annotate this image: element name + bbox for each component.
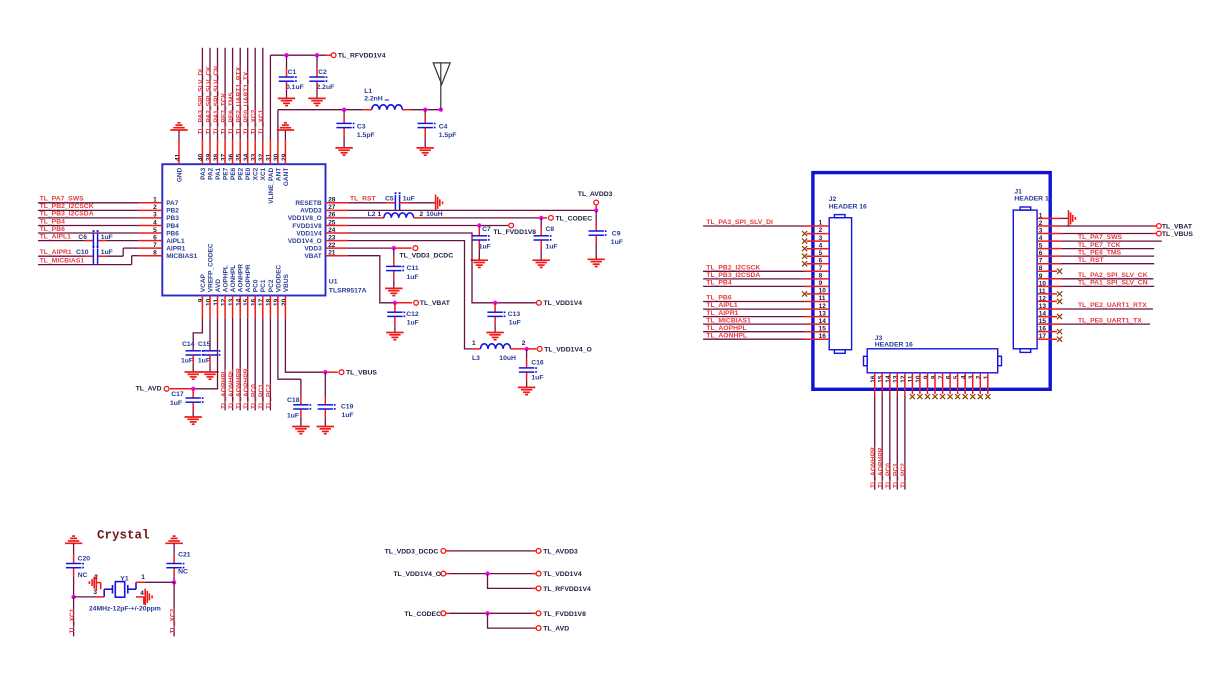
ground (C17): [185, 417, 202, 424]
ground (U1 pin 41): [170, 123, 187, 130]
svg-text:31: 31: [266, 153, 273, 161]
svg-text:6: 6: [945, 375, 952, 379]
svg-text:J2: J2: [829, 196, 837, 203]
wire VCAP (U1 pin 9) to C14: [193, 296, 202, 350]
svg-text:1.5pF: 1.5pF: [357, 132, 375, 139]
wire net TL_RST (J1 pin 7): [1037, 257, 1154, 264]
svg-text:PB3: PB3: [166, 215, 179, 222]
svg-text:24MHz-12pF-+/-20ppm: 24MHz-12pF-+/-20ppm: [89, 606, 161, 613]
svg-text:C8: C8: [546, 226, 555, 233]
crystal pin numbers: [93, 574, 145, 597]
svg-text:1uF: 1uF: [101, 234, 113, 241]
inductor L3 10uH: [472, 340, 526, 362]
wire net TL_PC1 (U1 pin 17): [258, 296, 265, 411]
svg-text:NC: NC: [78, 572, 88, 579]
svg-text:PE0: PE0: [245, 167, 252, 180]
svg-text:1uF: 1uF: [342, 412, 354, 419]
junction (XC2): [172, 580, 176, 584]
svg-text:11: 11: [908, 375, 915, 382]
wire net TL_VBUS (J1 pin 3): [1037, 233, 1156, 235]
ground (rotated, crystal pin 4): [136, 589, 152, 606]
svg-text:TL_AIPR1: TL_AIPR1: [706, 310, 738, 317]
junction (C3 tap): [342, 108, 346, 112]
svg-text:1: 1: [472, 340, 476, 347]
svg-text:AVD: AVD: [215, 279, 222, 293]
svg-text:C7: C7: [482, 226, 491, 233]
port TL_VBAT: [414, 300, 451, 307]
svg-text:XC2: XC2: [253, 167, 260, 180]
svg-text:1uF: 1uF: [407, 274, 419, 281]
svg-text:29: 29: [281, 153, 288, 161]
svg-text:15: 15: [878, 375, 885, 383]
wire net ANT (U1 pin 30) RF line: [278, 110, 372, 165]
svg-text:PC1: PC1: [260, 279, 267, 292]
no-connect J2 pin 6: [802, 261, 829, 266]
svg-text:TL_XC1: TL_XC1: [69, 608, 76, 633]
capacitor C20 NC: [66, 543, 90, 597]
port TL_VBUS (J1): [1157, 231, 1194, 238]
svg-text:40: 40: [198, 153, 205, 161]
wire net TL_PB2_I2CSCK (U1 pin 2): [38, 203, 162, 210]
wire net TL_MICBIAS1 (U1 pin 8): [38, 256, 162, 265]
IC U1 TLSR9517A body: [162, 164, 325, 295]
connector J3 HEADER 16 body: [864, 349, 1002, 373]
wire net TL_PA3_SPI_SLV_DI (J2 pin 1): [703, 219, 829, 226]
svg-text:TL_PA2_SPI_SLV_CK: TL_PA2_SPI_SLV_CK: [205, 66, 212, 135]
svg-text:TL_PC0: TL_PC0: [885, 463, 892, 488]
wire net TL_AONHPR (U1 pin 14): [236, 296, 243, 411]
svg-text:C14: C14: [182, 341, 195, 348]
ground (C2): [308, 98, 325, 105]
net tie TL_VDD1V4_O to TL_VDD1V4 / TL_RFVDD1V4: [393, 571, 582, 578]
port TL_VDD3_DCDC: [400, 246, 454, 260]
svg-text:TL_PA2_SPI_SLV_CK: TL_PA2_SPI_SLV_CK: [1078, 272, 1148, 279]
wire net TL_VBAT (J1 pin 2): [1037, 225, 1156, 227]
svg-text:PA1: PA1: [215, 167, 222, 180]
no-connect J3 pin 10: [917, 373, 922, 399]
wire net TL_AIPR1 (U1 pin 7): [38, 248, 162, 256]
capacitor C6 1uF (series, AIPL1): [78, 230, 112, 248]
svg-text:C9: C9: [612, 230, 621, 237]
svg-text:TL_PA3_SPI_SLV_DI: TL_PA3_SPI_SLV_DI: [198, 69, 205, 135]
svg-text:TL_PA7_SWS: TL_PA7_SWS: [1078, 234, 1123, 241]
svg-text:1uF: 1uF: [403, 195, 415, 202]
svg-text:TL_VDD1V4_O: TL_VDD1V4_O: [544, 346, 592, 353]
junction (TL_CODEC/C8): [539, 216, 543, 220]
no-connect J3 pin 4: [963, 373, 968, 399]
ground (C19): [317, 427, 334, 434]
svg-text:PB4: PB4: [166, 223, 179, 230]
capacitor C7 1uF: [472, 226, 491, 261]
svg-text:1uF: 1uF: [407, 320, 419, 327]
wire net TL_AVD (U1 pin 11 AVD): [170, 296, 218, 389]
capacitor C12 1uF: [387, 303, 419, 333]
junction (C1 tap): [284, 53, 288, 57]
svg-text:AOPHPL: AOPHPL: [223, 265, 230, 292]
wire net TL_VDD3_DCDC (U1 pin 22 VDD3): [326, 247, 412, 249]
svg-text:Crystal: Crystal: [97, 529, 150, 543]
no-connect J3 pin 8: [932, 373, 937, 399]
svg-text:C20: C20: [78, 555, 91, 562]
svg-text:TL_AONHPR: TL_AONHPR: [870, 447, 877, 488]
wire net TL_CODEC (L2 to port): [414, 217, 547, 219]
svg-text:TL_AVD: TL_AVD: [136, 386, 162, 393]
junction (C4 tap): [423, 108, 427, 112]
svg-text:PB2: PB2: [166, 208, 179, 215]
svg-text:10: 10: [915, 375, 922, 383]
svg-text:TL_AONHPL: TL_AONHPL: [228, 369, 235, 409]
wire VDDDEC (U1 pin 19) to C18: [278, 296, 301, 380]
svg-text:TL_PC1: TL_PC1: [258, 384, 265, 409]
no-connect J3 pin 6: [948, 373, 953, 399]
svg-text:18: 18: [266, 298, 273, 306]
ground (C15): [201, 372, 218, 379]
svg-text:AIPL1: AIPL1: [166, 238, 185, 245]
capacitor C3 1.5pF: [336, 110, 374, 148]
capacitor C17 1uF: [170, 389, 204, 417]
inductor L2 10uH: [368, 211, 443, 218]
svg-text:13: 13: [893, 375, 900, 383]
svg-text:9: 9: [923, 375, 930, 379]
ground (C7): [471, 260, 488, 267]
svg-text:TL_PA1_SPI_SLV_CN: TL_PA1_SPI_SLV_CN: [213, 66, 220, 135]
svg-text:VCAP: VCAP: [200, 273, 207, 292]
svg-text:10: 10: [205, 298, 212, 306]
wire net TL_AIPL1 (U1 pin 6): [38, 233, 162, 240]
svg-text:TL_PE2_UART1_RTX: TL_PE2_UART1_RTX: [236, 66, 243, 134]
svg-text:TL_RST: TL_RST: [1078, 257, 1105, 264]
svg-text:30: 30: [273, 153, 280, 161]
svg-text:39: 39: [205, 153, 212, 161]
wire net TL_MICBIAS1 (J2 pin 14): [703, 317, 829, 324]
wire L1 to antenna: [411, 109, 441, 111]
svg-text:2: 2: [976, 375, 983, 379]
wire net TL_PC1 (J3 pin 13): [893, 373, 900, 490]
wire net TL_PE0_UART1_TX (J1 pin 15): [1037, 317, 1150, 324]
svg-text:1uF: 1uF: [170, 400, 182, 407]
no-connect J1 pin 11: [1037, 291, 1062, 296]
junction (AVDD3/C9): [594, 208, 598, 212]
junction (net tie C): [485, 611, 489, 615]
crystal value label: [89, 606, 161, 613]
no-connect J1 pin 14: [1037, 314, 1062, 319]
svg-text:XC1: XC1: [260, 167, 267, 180]
svg-text:36: 36: [228, 153, 235, 161]
wire net TL_XC1: [69, 597, 76, 637]
svg-text:TL_PE0_UART1_TX: TL_PE0_UART1_TX: [1078, 317, 1142, 324]
svg-text:TL_PE2_UART1_RTX: TL_PE2_UART1_RTX: [1078, 302, 1147, 309]
wire net TL_XC1 (U1 pin 32): [258, 48, 265, 164]
svg-text:TL_PE0_UART1_TX: TL_PE0_UART1_TX: [243, 71, 250, 134]
svg-text:TL_PA3_SPI_SLV_DI: TL_PA3_SPI_SLV_DI: [706, 219, 773, 226]
svg-text:PA3: PA3: [200, 167, 207, 180]
port TL_AVD: [136, 386, 169, 393]
svg-text:1uF: 1uF: [546, 243, 558, 250]
no-connect J1 pin 17: [1037, 337, 1062, 342]
junction (net tie B): [485, 571, 489, 575]
connector block outline: [813, 173, 1050, 390]
antenna: [433, 63, 450, 110]
svg-text:AONHPL: AONHPL: [230, 265, 237, 292]
wire net TL_PA7_SWS (U1 pin 1): [38, 196, 162, 203]
svg-text:16: 16: [870, 375, 877, 383]
svg-text:TL_AONHPL: TL_AONHPL: [706, 332, 747, 339]
port TL_VBUS: [339, 370, 377, 377]
svg-text:RESETB: RESETB: [295, 200, 322, 207]
svg-text:10uH: 10uH: [499, 355, 516, 362]
svg-text:HEADER 16: HEADER 16: [875, 342, 913, 349]
ground (C4): [417, 148, 434, 155]
svg-text:17: 17: [258, 298, 265, 306]
IC U1 pin names: [166, 167, 322, 292]
no-connect J1 pin 12: [1037, 299, 1062, 304]
connector J2 pin numbers: [819, 220, 827, 340]
svg-text:L3: L3: [472, 355, 480, 362]
svg-text:GND: GND: [176, 167, 183, 182]
svg-text:TL_CODEC: TL_CODEC: [404, 611, 441, 618]
capacitor C10 1uF (series, AIPR1): [76, 246, 113, 264]
svg-text:L2: L2: [368, 211, 376, 218]
svg-text:TL_PB3_I2CSDA: TL_PB3_I2CSDA: [40, 211, 94, 218]
ground (above C20): [65, 536, 82, 543]
svg-text:TL_AIPL1: TL_AIPL1: [706, 302, 738, 309]
wire net TL_PE0_UART1_TX (U1 pin 34): [243, 48, 250, 164]
wire net TL_PE2_UART1_RTX (U1 pin 35): [236, 48, 243, 164]
svg-text:TL_VDD3_DCDC: TL_VDD3_DCDC: [400, 252, 454, 259]
svg-text:14: 14: [885, 375, 892, 383]
capacitor C19 1uF: [318, 372, 354, 426]
wire net TL_PA1_SPI_SLV_CN (U1 pin 38): [213, 48, 220, 164]
svg-text:32: 32: [258, 153, 265, 161]
capacitor C21 NC: [166, 543, 190, 582]
no-connect J1 pin 8: [1037, 269, 1062, 274]
no-connect J2 pin 5: [802, 254, 829, 259]
wire GND pin 41 to ground: [178, 130, 180, 164]
wire net TL_AIPL1 (J2 pin 12): [703, 302, 829, 309]
svg-text:C6: C6: [78, 234, 87, 241]
wire branch to TL_AVD: [488, 613, 570, 632]
wire net TL_RFVDD1V4 (U1 pin 31 VLINE_PAD): [270, 55, 331, 164]
connector J1 labels: [1014, 188, 1052, 202]
Crystal section title: [97, 529, 150, 543]
svg-text:AOPHPR: AOPHPR: [245, 264, 252, 292]
svg-text:VDD1V4_O: VDD1V4_O: [288, 238, 322, 245]
no-connect J3 pin 9: [925, 373, 930, 399]
connector J3 labels: [875, 335, 913, 349]
wire J1 pin 1 to ground: [1037, 217, 1068, 219]
svg-text:5: 5: [953, 375, 960, 379]
svg-text:13: 13: [228, 298, 235, 306]
no-connect J3 pin 1: [985, 373, 990, 399]
svg-text:VDD3: VDD3: [304, 245, 322, 252]
svg-text:3: 3: [968, 375, 975, 379]
connector J1 pin numbers: [1039, 212, 1047, 340]
svg-text:TL_RFVDD1V4: TL_RFVDD1V4: [338, 53, 386, 60]
svg-text:1uF: 1uF: [198, 358, 210, 365]
svg-text:PC2: PC2: [268, 279, 275, 292]
svg-text:AONHPR: AONHPR: [238, 264, 245, 292]
ground (C1): [278, 98, 295, 105]
no-connect J2 pin 4: [802, 246, 829, 251]
svg-text:TL_VDD1V4_O: TL_VDD1V4_O: [393, 571, 441, 578]
wire net TL_RST (U1 pin 28 RESETB): [326, 195, 396, 202]
svg-text:VBAT: VBAT: [304, 253, 321, 260]
ground (C16): [518, 387, 535, 394]
svg-text:TL_VDD3_DCDC: TL_VDD3_DCDC: [385, 549, 439, 556]
svg-text:TL_PB3_I2CSDA: TL_PB3_I2CSDA: [706, 272, 760, 279]
svg-text:TL_PE6_TMS: TL_PE6_TMS: [228, 92, 235, 135]
svg-text:TL_VBAT: TL_VBAT: [1162, 223, 1193, 230]
svg-text:ANT: ANT: [275, 168, 282, 181]
svg-text:VDD1V4: VDD1V4: [296, 230, 322, 237]
ground (C12): [386, 333, 403, 340]
capacitor C18 1uF: [287, 379, 311, 426]
svg-text:TL_FVDD1V8: TL_FVDD1V8: [493, 229, 536, 236]
svg-text:TL_PC1: TL_PC1: [893, 463, 900, 488]
wire net TL_VDD1V4_O (L3 to port): [511, 348, 537, 350]
svg-text:C3: C3: [357, 123, 366, 130]
ground (C3): [335, 148, 352, 155]
net tie TL_CODEC to TL_FVDD1V8 / TL_AVD: [404, 611, 586, 618]
wire net TL_PA2_SPI_SLV_CK (U1 pin 39): [205, 48, 212, 164]
svg-text:2: 2: [522, 340, 526, 347]
wire net TL_PB2_I2CSCK (J2 pin 7): [703, 265, 829, 272]
svg-text:TL_AIPR1: TL_AIPR1: [40, 249, 72, 256]
junction (FVDD1V8/C7): [477, 223, 481, 227]
no-connect J2 pin 2: [802, 231, 829, 236]
svg-text:TL_VBAT: TL_VBAT: [420, 300, 451, 307]
svg-text:TL_VDD1V4: TL_VDD1V4: [543, 571, 582, 578]
svg-text:C19: C19: [341, 404, 354, 411]
port TL_VDD1V4: [537, 300, 583, 307]
wire net TL_PB4 (U1 pin 4): [38, 218, 162, 225]
svg-text:38: 38: [213, 153, 220, 161]
IC U1 pin numbers: [153, 153, 336, 306]
svg-text:TL_PB6: TL_PB6: [706, 295, 732, 302]
wire net TL_PC2 (U1 pin 18): [266, 296, 273, 411]
wire net TL_PC0 (U1 pin 16): [251, 296, 258, 411]
svg-text:TL_RFVDD1V4: TL_RFVDD1V4: [543, 586, 591, 593]
capacitor C13 1uF: [487, 303, 520, 333]
junction (antenna): [439, 108, 443, 112]
capacitor C11 1uF: [386, 248, 419, 288]
port TL_CODEC: [549, 215, 593, 222]
svg-text:12: 12: [220, 298, 227, 306]
svg-text:4: 4: [140, 590, 144, 597]
svg-text:1.5pF: 1.5pF: [439, 132, 457, 139]
svg-text:C5: C5: [385, 195, 394, 202]
ground (C8): [533, 260, 550, 267]
no-connect J3 pin 2: [978, 373, 983, 399]
IC U1 refdes label: [329, 279, 367, 295]
svg-text:2: 2: [420, 211, 424, 218]
svg-text:GANT: GANT: [283, 168, 290, 186]
wire net TL_PA1_SPI_SLV_CN (J1 pin 10): [1037, 280, 1154, 287]
svg-text:7: 7: [938, 375, 945, 379]
svg-text:C15: C15: [198, 341, 211, 348]
svg-text:TL_AVDD3: TL_AVDD3: [543, 549, 578, 556]
wire crystal pin 3 to XC1: [74, 596, 105, 598]
inductor L1 2.2nH: [364, 88, 411, 110]
svg-text:PA7: PA7: [166, 200, 179, 207]
svg-text:C4: C4: [439, 123, 448, 130]
svg-text:PA2: PA2: [207, 167, 214, 180]
ground (rotated, C5): [436, 195, 443, 212]
no-connect J3 pin 7: [940, 373, 945, 399]
wire net TL_PE6_TMS (J1 pin 6): [1037, 249, 1154, 256]
svg-text:AVDD3: AVDD3: [300, 208, 322, 215]
connector J1 HEADER 17 body: [1013, 207, 1037, 352]
svg-text:TL_AVD: TL_AVD: [543, 626, 569, 633]
connector J3 pin numbers: [870, 375, 990, 383]
svg-text:16: 16: [251, 298, 258, 306]
wire crystal pin 1 to XC2: [136, 581, 174, 583]
junction (VDD3/C11): [392, 246, 396, 250]
ground (C14): [185, 372, 202, 379]
svg-text:TL_XC2: TL_XC2: [251, 109, 258, 134]
svg-text:15: 15: [243, 298, 250, 306]
ground (U1 pin 29 GANT): [277, 123, 294, 130]
svg-text:C1: C1: [288, 69, 297, 76]
port TL_AVDD3: [578, 191, 613, 205]
wire C5 to ground symbol: [400, 202, 436, 204]
ground (C13): [486, 333, 503, 340]
wire net TL_PE7_TCK (U1 pin 37): [220, 48, 227, 164]
svg-text:TL_PC2: TL_PC2: [900, 463, 907, 488]
wire net TL_PE7_TCK (J1 pin 5): [1037, 242, 1154, 249]
svg-text:TL_XC1: TL_XC1: [258, 109, 265, 134]
wire net TL_AONHPL (J2 pin 16): [703, 332, 829, 339]
wire net TL_PB6 (U1 pin 5): [38, 226, 162, 233]
svg-text:C17: C17: [171, 391, 184, 398]
svg-text:C10: C10: [76, 249, 89, 256]
no-connect J3 pin 5: [955, 373, 960, 399]
svg-text:35: 35: [236, 153, 243, 161]
svg-text:1uF: 1uF: [509, 320, 521, 327]
junction (VBUS/C19): [323, 370, 327, 374]
wire net TL_PC0 (J3 pin 14): [885, 373, 892, 490]
svg-text:11: 11: [213, 298, 220, 305]
capacitor C14 1uF: [181, 341, 204, 372]
svg-text:C2: C2: [318, 69, 327, 76]
svg-text:TL_MICBIAS1: TL_MICBIAS1: [40, 257, 85, 264]
svg-text:TL_PB6: TL_PB6: [40, 226, 66, 233]
svg-text:TL_AOPHPR: TL_AOPHPR: [243, 368, 250, 409]
svg-text:VBUS: VBUS: [283, 273, 290, 292]
junction (XC1): [71, 595, 75, 599]
svg-text:TL_PB2_I2CSCK: TL_PB2_I2CSCK: [706, 265, 760, 272]
svg-text:TL_VBUS: TL_VBUS: [346, 370, 377, 377]
svg-text:VDDDEC: VDDDEC: [275, 264, 282, 292]
wire net TL_AONHPR (J3 pin 16): [870, 373, 877, 490]
svg-text:34: 34: [243, 153, 250, 161]
svg-text:C11: C11: [407, 265, 419, 272]
svg-text:PE7: PE7: [223, 167, 230, 180]
wire net TL_PC2 (J3 pin 12): [900, 373, 907, 490]
wire GANT (U1 pin 29) to ground: [284, 130, 286, 164]
svg-text:4: 4: [961, 375, 968, 379]
svg-text:TL_PE7_TCK: TL_PE7_TCK: [1078, 242, 1121, 249]
wire net TL_PB3_I2CSDA (U1 pin 3): [38, 211, 162, 218]
wire net TL_VDD1V4 (U1 pin 24): [326, 233, 537, 303]
capacitor C5 1uF (series, RESETB): [385, 192, 415, 210]
svg-text:C18: C18: [287, 397, 300, 404]
port TL_RFVDD1V4: [331, 53, 386, 60]
wire net TL_VBAT (U1 pin 21 VBAT): [326, 256, 413, 303]
wire net VDD1V8_O (U1 pin 26) to L2: [326, 217, 384, 219]
svg-text:TL_VDD1V4: TL_VDD1V4: [544, 300, 583, 307]
wire net TL_AOPHPR (J3 pin 15): [878, 373, 885, 490]
